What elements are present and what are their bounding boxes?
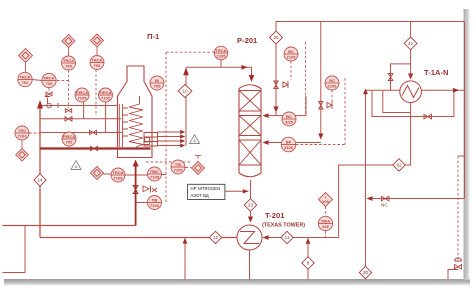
arrow up x=308	[306, 238, 311, 244]
wire riser x=365.5	[365, 90, 367, 279]
node 41	[404, 37, 417, 50]
wire dashed signal trunk x=305.5	[305, 42, 307, 115]
svg-text:41: 41	[408, 41, 414, 46]
svg-text:8: 8	[307, 261, 310, 266]
svg-text:TRIA: TRIA	[321, 218, 330, 223]
control valve on dashed stem	[65, 109, 71, 113]
coil	[129, 96, 143, 147]
wire NC line	[368, 198, 465, 200]
valve on H3	[90, 130, 97, 134]
dcs diamond b	[91, 34, 104, 56]
control valve bottom right	[455, 258, 462, 269]
svg-text:BC: BC	[329, 78, 335, 83]
instrument PI on transfer line	[214, 46, 228, 60]
wire drop from diamond 20	[275, 44, 277, 116]
dcs diamond below grid	[91, 167, 104, 180]
svg-text:14: 14	[37, 178, 43, 183]
wire dashed stem left pair	[57, 80, 68, 82]
wire stem circle 82	[83, 102, 85, 119]
valve on H1	[47, 103, 52, 108]
arrow right T-1A-N outlet	[453, 88, 459, 93]
wire dashed link circles left	[48, 88, 50, 92]
header box	[144, 133, 158, 147]
svg-text:2105: 2105	[287, 55, 297, 60]
wire T-201 inlet line left	[40, 237, 237, 239]
wire T-1A-N outlet right	[421, 89, 464, 91]
valve on NC line	[382, 196, 390, 201]
wire T-201 bottom drop	[249, 250, 251, 280]
arrow right HP nitrogen	[243, 189, 249, 193]
svg-text:TRCA: TRCA	[63, 58, 74, 63]
warning triangle 4 right of furnace	[190, 135, 200, 144]
wire dashed stem C2	[95, 70, 97, 117]
instrument FIRCA grid b	[99, 88, 113, 102]
wire dashed to control valve bottom right	[457, 156, 459, 262]
node 14	[34, 174, 46, 186]
instrument FIRCA on H3	[62, 132, 76, 149]
wire furnace outlet manifold	[185, 70, 187, 146]
wire dashed trunk x=345	[344, 78, 346, 145]
valve cross at 154,190	[152, 188, 157, 192]
arrowheads	[37, 65, 459, 244]
arrow left upper feed	[263, 113, 269, 118]
stream diamonds	[34, 31, 417, 279]
instrument TRIA-206	[318, 216, 332, 230]
svg-text:BC: BC	[288, 49, 294, 54]
control valve on drop from diamond 20	[274, 81, 278, 89]
svg-text:АЗОТ ВД: АЗОТ ВД	[191, 193, 209, 198]
wire dashed interlock stem	[325, 207, 327, 238]
wire control valve outlet bottom right	[448, 270, 458, 280]
wire bottom left header	[3, 225, 136, 227]
wire stem diamond 20 up	[275, 22, 277, 32]
valve small under circle 46,80	[46, 92, 52, 96]
wire bubble row y=175 links	[104, 174, 167, 175]
control valve on x=321	[319, 102, 323, 110]
svg-text:703: 703	[94, 63, 101, 68]
svg-text:TRCA: TRCA	[91, 57, 102, 62]
wire dashed below furnace	[146, 156, 198, 168]
arrow up furnace charge	[133, 160, 139, 167]
node 10	[178, 85, 192, 98]
actuator beside it	[327, 102, 332, 109]
svg-text:2106: 2106	[284, 145, 294, 150]
wire header H3	[40, 132, 122, 134]
instrument TRCA below furnace a	[111, 168, 125, 182]
wire dashed stem BC2105	[290, 61, 292, 80]
svg-text:TRCA: TRCA	[19, 74, 30, 79]
svg-text:FRCA: FRCA	[43, 75, 54, 80]
furnace П-1	[118, 66, 153, 158]
svg-text:BC: BC	[286, 114, 292, 119]
svg-text:3/25: 3/25	[285, 120, 294, 125]
vent post on H1	[45, 97, 58, 109]
wire coil supply header H4 bold	[40, 147, 151, 149]
instrument TRCA top-left a	[62, 56, 76, 70]
wire drop x=321 to lower column feed	[320, 22, 322, 136]
wire upper feed into P-201	[265, 96, 306, 116]
svg-text:62: 62	[396, 163, 402, 168]
wire T-1A-N return loop	[339, 103, 411, 238]
arrow left NC line	[367, 196, 373, 201]
wire HP nitrogen line	[226, 190, 249, 192]
instrument FRCA left	[42, 73, 56, 87]
svg-text:FIRCA: FIRCA	[63, 134, 75, 139]
svg-text:(TEXAS TOWER): (TEXAS TOWER)	[262, 223, 305, 229]
bold lines	[40, 149, 151, 226]
wire riser x=185	[184, 238, 186, 280]
actuator beside it	[283, 81, 288, 88]
instrument TRCA left	[18, 72, 32, 86]
wire header H2	[40, 118, 121, 120]
dcs diamond below furnace right	[192, 156, 205, 175]
wire T-201 outlet line right	[263, 237, 339, 239]
svg-text:BI: BI	[155, 78, 159, 83]
wire T-1A-N outer bypass	[372, 90, 454, 116]
svg-text:7102: 7102	[18, 134, 28, 139]
svg-text:P-201: P-201	[237, 36, 258, 45]
dcs diamond left of TRC	[16, 140, 29, 161]
svg-text:20: 20	[273, 35, 279, 40]
arrow down into T-201	[248, 217, 253, 223]
instrument BI at furnace neck	[150, 76, 164, 90]
arrow down x=321	[318, 134, 323, 140]
valve pair on H4	[91, 146, 98, 150]
wire top header	[276, 21, 465, 23]
svg-text:705: 705	[66, 140, 73, 145]
wire drain L bottom left	[3, 226, 26, 273]
valve on H2	[65, 117, 72, 121]
wire main left riser x=40	[39, 103, 41, 238]
arrow down from diamond 20	[273, 107, 278, 113]
dcs diamond a	[62, 35, 75, 57]
svg-text:23: 23	[248, 203, 254, 208]
wire dashed BP2106 link	[296, 144, 345, 146]
wire dashed stem C1	[68, 70, 70, 108]
valve on T-1A-N top bypass	[388, 74, 393, 81]
wire T-1A-N inner loop	[383, 90, 411, 112]
wire T-1A-N inlet left	[366, 89, 400, 91]
wire drop x=410.6 to T-1A-N	[410, 22, 412, 78]
dashed signal lines	[29, 42, 458, 262]
svg-text:12: 12	[213, 235, 219, 240]
arrow up junction x=185	[183, 238, 188, 244]
svg-text:7105: 7105	[174, 168, 184, 173]
instrument BC-2105	[284, 47, 298, 61]
svg-text:HP NITROGEN: HP NITROGEN	[191, 186, 221, 191]
svg-text:П-1: П-1	[147, 32, 160, 41]
wire drop x=308	[307, 238, 309, 280]
svg-text:BP: BP	[286, 139, 292, 144]
wire header H1	[40, 105, 118, 107]
heat exchanger T-201	[237, 225, 262, 250]
svg-text:705: 705	[65, 64, 72, 69]
wire right drop to NC line	[464, 22, 466, 199]
svg-text:T-201: T-201	[265, 211, 285, 220]
bubble tiny texts	[18, 48, 338, 229]
node 62	[393, 159, 405, 171]
instrument TRI below furnace	[171, 160, 185, 174]
svg-text:30: 30	[363, 270, 369, 275]
arrow left into T-201 right side	[263, 235, 269, 240]
svg-text:T-1A-N: T-1A-N	[424, 68, 448, 77]
arrow down into T-1A-N	[408, 74, 413, 80]
warning triangle 4 bottom left	[71, 161, 81, 170]
instrument BC-3-25	[282, 112, 296, 126]
wire T-1A-N top bypass	[391, 64, 411, 90]
wire lower feed into P-201	[265, 142, 321, 144]
instrument PW sample	[148, 196, 162, 210]
instrument TRCA top-left b	[90, 56, 104, 70]
instrument PWS below furnace	[148, 167, 162, 181]
instrument bubbles	[15, 46, 339, 231]
node 20	[270, 31, 283, 44]
node 12	[209, 231, 221, 243]
instrument FIRCA grid a	[75, 88, 89, 102]
svg-text:FIRCA: FIRCA	[76, 90, 88, 95]
svg-text:TRCA: TRCA	[215, 48, 226, 53]
valve on furnace charge riser	[133, 186, 138, 194]
svg-text:2105: 2105	[217, 54, 227, 59]
arrows right coil outlets	[180, 130, 185, 148]
wire coil outlet arrows	[158, 132, 185, 146]
arrow up into H1 junction	[37, 100, 43, 109]
page shadow bottom	[4, 279, 470, 287]
svg-text:ПВ: ПВ	[152, 197, 158, 202]
HP nitrogen box	[188, 184, 225, 199]
interlock diamond I-200	[319, 193, 333, 207]
wire grid vertical x=105.6	[105, 102, 107, 133]
svg-text:2106: 2106	[328, 84, 338, 89]
svg-text:TRC: TRC	[18, 128, 26, 133]
valves	[45, 74, 462, 269]
furnace internals: baffle, tube ticks, coil, header box	[119, 96, 157, 147]
svg-text:TRCA: TRCA	[112, 170, 123, 175]
instrument BC-2106	[325, 76, 339, 90]
page shadow right	[464, 9, 472, 280]
node 30	[359, 266, 371, 278]
wire stem of PI bubble on transfer line	[220, 60, 222, 68]
flag gauge beside riser	[143, 186, 151, 193]
heat exchanger T-1A-N	[400, 81, 422, 103]
wire furnace charge riser bold	[135, 162, 137, 226]
instrument BP-2106	[281, 137, 296, 152]
svg-text:TRI: TRI	[175, 162, 181, 167]
svg-text:NC: NC	[381, 203, 388, 208]
node 11	[281, 231, 293, 243]
valve on outer bypass	[424, 114, 432, 119]
wire dashed stem BC2106	[331, 90, 333, 102]
svg-text:705: 705	[154, 84, 161, 89]
svg-text:11: 11	[285, 235, 290, 240]
node 8	[302, 257, 314, 269]
wire sample tap below furnace	[136, 202, 148, 204]
node 23	[244, 199, 257, 212]
arrow left lower feed	[263, 140, 269, 145]
svg-text:FIRCA: FIRCA	[99, 90, 111, 95]
DCS diamonds	[16, 34, 333, 207]
svg-text:702: 702	[22, 80, 29, 85]
svg-text:7103: 7103	[101, 96, 111, 101]
dcs diamond c	[19, 49, 42, 81]
svg-text:7108: 7108	[150, 175, 160, 180]
wire transfer header to P-201 top	[186, 67, 252, 80]
svg-text:705: 705	[46, 81, 53, 86]
svg-text:ПВС: ПВС	[150, 169, 159, 174]
svg-text:7105: 7105	[78, 96, 88, 101]
svg-text:200: 200	[322, 199, 329, 204]
svg-text:7102: 7102	[150, 203, 160, 208]
arrow up furnace manifold	[183, 67, 189, 75]
arrow down into P-201 top	[249, 75, 255, 82]
svg-text:206: 206	[322, 224, 329, 229]
svg-text:7108: 7108	[114, 176, 124, 181]
coil outlet trap	[144, 138, 150, 145]
arrow up riser x=365.5	[363, 89, 368, 95]
wire dashed battery limit x=166	[166, 52, 214, 203]
svg-text:10: 10	[182, 89, 188, 94]
wire branch to control valve bottom right	[458, 155, 465, 157]
instrument TRC at H3	[15, 126, 29, 140]
column P-201	[239, 85, 261, 177]
wire P-201 bottoms line	[250, 180, 252, 221]
wire dashed link TRC circle	[29, 132, 40, 134]
